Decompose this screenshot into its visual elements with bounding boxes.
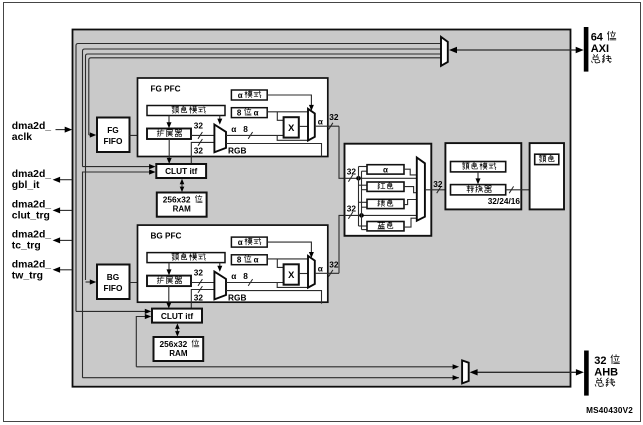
FG color-mode box [147, 106, 225, 116]
wire blender out to converter (32) [425, 189, 451, 191]
svg-text:32: 32 [594, 355, 606, 367]
wire BG 8bit-alpha branch to X [277, 259, 283, 268]
svg-text:FG: FG [107, 125, 119, 135]
wire BG CLUT to RGB mux (32) [191, 290, 214, 309]
svg-text:α: α [254, 256, 259, 265]
BG FIFO [97, 265, 130, 300]
wire BG CLUT to RAM (double arrow) [176, 325, 178, 335]
wires component boxes to output mux [404, 169, 417, 175]
wire FG FIFO to expander [130, 134, 148, 136]
svg-text:aclk: aclk [12, 132, 32, 143]
wire expander to RGB mux (32) [191, 134, 214, 136]
AXI bus bar [584, 27, 589, 72]
svg-text:AHB: AHB [594, 367, 618, 379]
blender alpha box [367, 165, 404, 174]
wire dma2d_gbl_it output arrow [59, 179, 72, 181]
output FIFO block [530, 143, 564, 209]
svg-text:32: 32 [329, 259, 339, 269]
BG CLUT itf [152, 309, 202, 323]
svg-text:α: α [383, 165, 388, 174]
wire AXI to BG CLUT itf (arrow) [76, 310, 146, 312]
svg-text:256x32: 256x32 [160, 339, 188, 349]
svg-text:32: 32 [194, 145, 204, 155]
wire dma2d_tw_trg output arrow [59, 269, 72, 271]
wire RGB 24-bit path [226, 144, 322, 157]
wire AXI to FG CLUT itf (arrow) [83, 166, 151, 168]
svg-text:RGB: RGB [228, 145, 246, 155]
BG multiplier X [284, 264, 299, 284]
wire dma2d_clut_trg output arrow [59, 209, 72, 211]
svg-text:FG PFC: FG PFC [151, 85, 181, 94]
wire BG color-mode to expander (arrow) [168, 263, 170, 273]
svg-text:8: 8 [237, 256, 242, 265]
wire BG RGB 24-bit path [226, 291, 322, 304]
svg-text:32: 32 [347, 203, 357, 213]
svg-text:dma2d_: dma2d_ [12, 259, 51, 270]
svg-text:32/24/16: 32/24/16 [488, 196, 521, 206]
FG expander box [147, 129, 191, 140]
svg-text:RGB: RGB [228, 293, 246, 303]
FG CLUT RAM [157, 193, 207, 217]
svg-text:FIFO: FIFO [104, 136, 123, 146]
blender green box [367, 199, 404, 208]
wire AXI-BGCLUT (top bus line 1) [76, 44, 441, 312]
converter color-mode box [451, 162, 506, 172]
blender red box [367, 182, 404, 191]
FG component feed vertical [358, 167, 360, 227]
DMA2D block (gray) [73, 30, 571, 387]
converter box [451, 185, 506, 195]
svg-text:tw_trg: tw_trg [12, 271, 43, 282]
svg-text:32: 32 [194, 120, 204, 130]
wire AHB to BG CLUT itf (arrow) [136, 317, 146, 367]
wire BG alpha bypass under X [277, 283, 308, 288]
svg-text:X: X [288, 270, 295, 280]
wire AHB riser to FG CLUT itf (arrow) [83, 172, 151, 378]
wire BG 8bit-alpha reg to alpha mux [267, 258, 308, 260]
wire BG X out to alpha mux [299, 273, 308, 275]
FG PFC block [138, 78, 328, 157]
svg-text:dma2d_: dma2d_ [12, 169, 51, 180]
wire alpha bypass under X to alpha mux [277, 135, 308, 140]
wire FG CLUT to RGB mux (32) [191, 142, 214, 164]
svg-text:AXI: AXI [591, 43, 609, 55]
AHB bus bar [584, 351, 589, 396]
svg-text:dma2d_: dma2d_ [12, 230, 51, 241]
svg-text:MS40430V2: MS40430V2 [586, 406, 633, 415]
BG component feed vertical [361, 171, 363, 229]
svg-text:α: α [231, 124, 237, 134]
svg-text:256x32: 256x32 [163, 195, 191, 205]
wire riser to AHB (lower) [83, 377, 459, 379]
svg-text:RAM: RAM [173, 204, 192, 213]
wire expander down to FG CLUT (arrow) [168, 139, 170, 161]
wire into FG FIFO [89, 134, 90, 136]
FG alpha mux [308, 109, 315, 141]
wire color-mode to expander (arrow) [168, 116, 170, 126]
BG PFC block [138, 225, 328, 302]
FG multiplier X [284, 117, 299, 137]
color label box [535, 154, 559, 164]
blender blue box [367, 222, 404, 231]
FG RGB mux [214, 125, 226, 153]
BG 8-bit alpha box [231, 255, 267, 265]
blender block [345, 144, 432, 236]
svg-text:BG: BG [107, 272, 119, 282]
svg-text:α: α [238, 91, 243, 100]
svg-text:FIFO: FIFO [104, 283, 123, 293]
wire 8bit-alpha branch to X [277, 112, 283, 121]
wire BG expander down to CLUT (arrow) [168, 286, 170, 305]
BG RGB mux [214, 272, 226, 300]
blender output mux [417, 158, 425, 221]
svg-text:CLUT itf: CLUT itf [165, 166, 197, 176]
svg-text:32: 32 [329, 112, 339, 122]
BG alpha-mode box [231, 237, 267, 247]
svg-text:64: 64 [591, 31, 604, 43]
wire BG PFC out up to blender [339, 215, 362, 273]
wire BG color-mode to RGB mux select (arrow) [219, 263, 221, 269]
wire RGB mux alpha out to X [226, 134, 284, 136]
svg-text:32: 32 [347, 166, 357, 176]
wire converter out to output FIFO [506, 189, 530, 191]
AXI mux [441, 37, 448, 66]
svg-text:dma2d_: dma2d_ [12, 199, 51, 210]
BG expander box [147, 276, 191, 287]
wire FG CLUT to RAM (double arrow) [181, 181, 183, 191]
svg-text:α: α [318, 264, 324, 274]
wire X out to alpha mux [299, 125, 308, 127]
AHB mux [462, 360, 469, 383]
svg-text:dma2d_: dma2d_ [12, 121, 51, 132]
svg-text:α: α [238, 238, 243, 247]
svg-text:RAM: RAM [169, 349, 188, 358]
wire BG alpha-mode to alpha mux select (arrow) [267, 242, 311, 254]
svg-text:8: 8 [237, 109, 242, 118]
wire BG expander to RGB mux (32) [191, 282, 214, 284]
wire BG RGB mux alpha out to X [226, 282, 284, 284]
wire color-mode to RGB mux select (arrow) [219, 116, 221, 122]
FG 8-bit alpha box [231, 108, 267, 118]
svg-text:α: α [254, 109, 259, 118]
BG color-mode box [147, 253, 225, 263]
wire dma2d_tc_trg output arrow [59, 239, 72, 241]
FG CLUT itf [156, 164, 206, 178]
wire FG PFC out down to blender [339, 126, 359, 178]
wire alpha-mode to alpha mux select (arrow) [267, 95, 311, 107]
wire dma2d_aclk input arrow [56, 129, 66, 131]
wire AXI double arrow [453, 49, 580, 51]
wire BG FIFO to expander [130, 282, 148, 284]
wire AXI-FGCLUT (top bus line 2) [83, 49, 442, 167]
svg-text:8: 8 [243, 124, 248, 134]
svg-text:α: α [231, 271, 237, 281]
converter block [445, 143, 521, 209]
wire into BG FIFO [86, 281, 93, 283]
FG FIFO [97, 118, 130, 153]
svg-text:32: 32 [194, 267, 204, 277]
svg-text:32: 32 [194, 292, 204, 302]
wire AXI-FGFIFO (top bus line 4) [89, 58, 441, 135]
svg-text:gbl_it: gbl_it [12, 180, 40, 191]
wire 8bit-alpha reg to alpha mux [267, 111, 308, 113]
svg-text:tc_trg: tc_trg [12, 241, 41, 252]
svg-text:8: 8 [243, 271, 248, 281]
wire BG CLUT riser to AHB (upper) [136, 366, 455, 368]
BG alpha mux [308, 256, 315, 288]
wire AHB double arrow [474, 371, 581, 373]
svg-text:32: 32 [433, 179, 443, 189]
svg-text:BG PFC: BG PFC [151, 232, 182, 241]
wire AXI-BGFIFO (top bus line 3) [86, 54, 442, 280]
svg-text:X: X [288, 123, 295, 133]
svg-text:α: α [318, 116, 324, 126]
svg-text:clut_trg: clut_trg [12, 210, 50, 221]
FG alpha-mode box [231, 90, 267, 100]
wire color-mode to converter (arrow) [477, 172, 479, 182]
BG CLUT RAM [154, 337, 204, 361]
svg-text:CLUT itf: CLUT itf [161, 311, 193, 321]
